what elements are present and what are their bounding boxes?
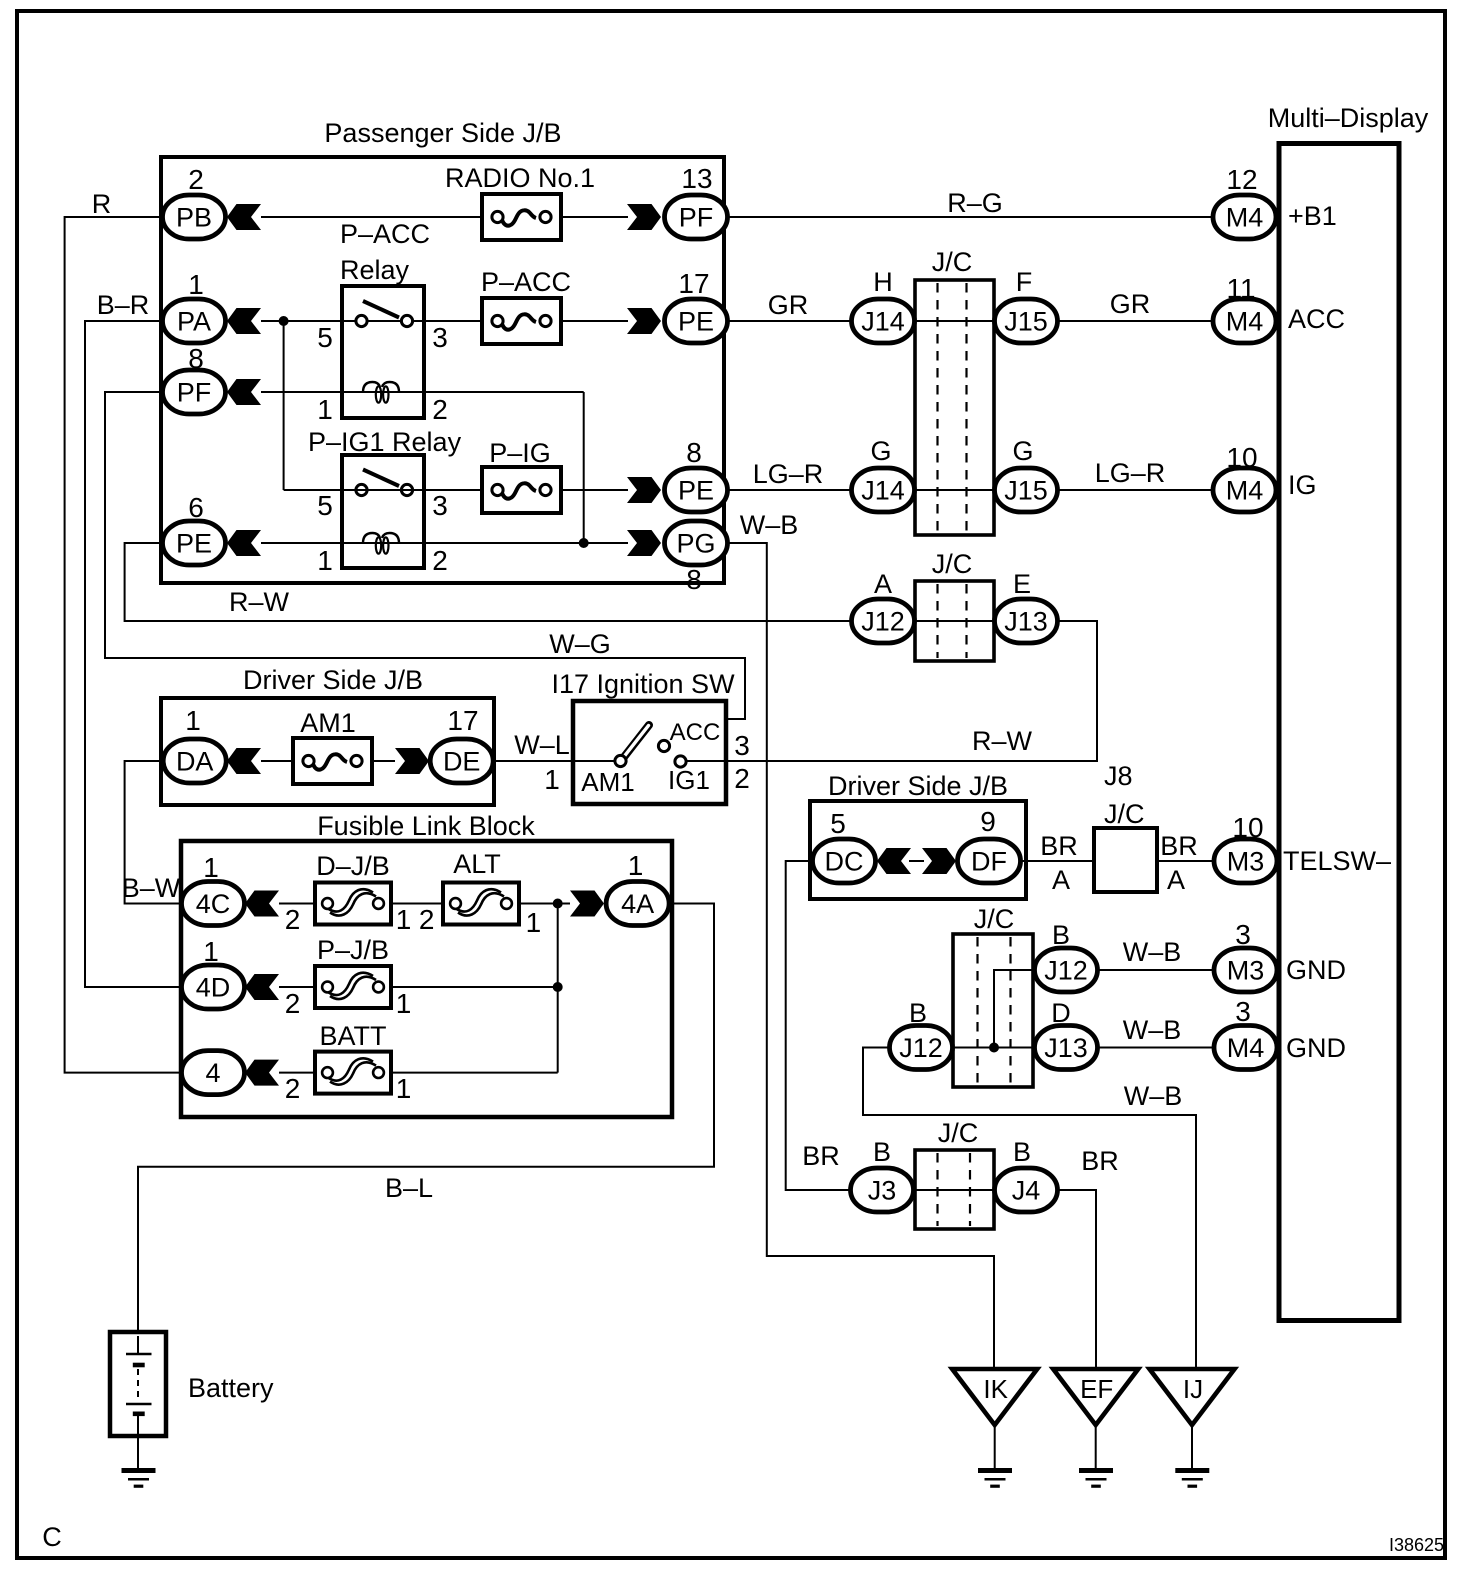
svg-text:PB: PB	[176, 203, 212, 233]
svg-text:2: 2	[432, 545, 448, 576]
svg-text:J/C: J/C	[932, 247, 973, 277]
node junction on PA wire	[279, 316, 289, 326]
wire 4C to D-J/B link	[279, 903, 315, 905]
connector J4	[995, 1168, 1058, 1212]
connector J13 E	[995, 599, 1058, 643]
ground IK ground	[978, 1471, 1012, 1487]
svg-text:1: 1	[526, 907, 542, 938]
fuse P-IG	[482, 467, 561, 513]
svg-text:W–G: W–G	[549, 629, 611, 659]
wire W-B net PG to IK ground	[727, 543, 994, 1369]
svg-text:1: 1	[185, 705, 201, 736]
svg-text:PF: PF	[679, 203, 714, 233]
wire P-ACC coil pin2 down to PG wire	[583, 392, 585, 543]
svg-text:J/C: J/C	[1104, 799, 1145, 829]
wire 4 to BATT link	[279, 1072, 315, 1074]
arrow into 4C	[245, 891, 279, 917]
connector DA	[163, 739, 226, 783]
svg-text:BR: BR	[1081, 1146, 1119, 1176]
svg-text:J15: J15	[1004, 307, 1048, 337]
relay coil P-IG1 relay	[363, 533, 399, 554]
svg-text:1: 1	[203, 936, 219, 967]
svg-text:2: 2	[188, 164, 204, 195]
svg-text:1: 1	[396, 904, 412, 935]
svg-text:GR: GR	[768, 290, 809, 320]
svg-text:5: 5	[317, 490, 333, 521]
wire LG-R net PE8 to J14 G	[727, 489, 851, 491]
svg-text:BR: BR	[802, 1141, 840, 1171]
svg-text:P–IG1 Relay: P–IG1 Relay	[308, 427, 462, 457]
fuse RADIO No.1	[482, 194, 561, 240]
svg-text:BR: BR	[1160, 831, 1198, 861]
svg-text:AM1: AM1	[300, 708, 356, 738]
wire R net: PB to fusible link 4	[65, 217, 183, 1073]
wire IJ to ground	[1191, 1425, 1193, 1469]
pin P-ACC relay pin 5 contact	[356, 315, 367, 326]
svg-text:11: 11	[1226, 273, 1255, 304]
svg-text:M4: M4	[1226, 476, 1264, 506]
arrow into DA	[227, 748, 261, 774]
connector M3 10	[1214, 839, 1277, 883]
svg-text:R–G: R–G	[947, 188, 1003, 218]
wire W-G net: PF to ignition ACC	[105, 392, 745, 741]
wire 4D to P-J/B link	[279, 986, 315, 988]
svg-text:J13: J13	[1004, 607, 1048, 637]
svg-text:Multi–Display: Multi–Display	[1268, 103, 1429, 133]
arrow into 4	[245, 1060, 279, 1086]
node junction at ALT output	[553, 899, 563, 909]
pin P-ACC relay pin 3 contact	[401, 315, 412, 326]
wire BR net DF to J8	[1021, 860, 1094, 862]
wire PB to RADIO No.1 fuse	[261, 216, 482, 218]
wire LG-R net J15 G to M4 10	[1058, 489, 1213, 491]
ground triangle EF	[1053, 1369, 1138, 1425]
svg-text:1: 1	[628, 850, 644, 881]
svg-text:Battery: Battery	[188, 1373, 274, 1403]
svg-text:8: 8	[188, 343, 204, 374]
svg-text:1: 1	[317, 545, 333, 576]
connector 4C	[182, 882, 245, 926]
svg-text:B: B	[1013, 1137, 1031, 1167]
svg-text:B–W: B–W	[122, 873, 181, 903]
svg-text:4D: 4D	[196, 973, 231, 1003]
wire ALT link to arrow	[519, 903, 570, 905]
connector J3	[851, 1168, 914, 1212]
svg-text:J15: J15	[1004, 476, 1048, 506]
wire W-B net J13 D to M4 3	[1098, 1047, 1213, 1049]
svg-text:BR: BR	[1040, 831, 1078, 861]
arrow out to PF 13	[627, 204, 661, 230]
fusible link BATT	[315, 1052, 391, 1094]
svg-text:R–W: R–W	[229, 587, 290, 617]
junction block J/C J14-J15	[915, 280, 994, 535]
svg-text:W–B: W–B	[1124, 1081, 1183, 1111]
arrow out to PE 8	[627, 477, 661, 503]
connector J12 B left	[890, 1026, 953, 1070]
fusible link D-J/B	[315, 883, 391, 925]
svg-text:M4: M4	[1227, 1033, 1265, 1063]
wire GR net J15 F to M4 11	[1058, 320, 1213, 322]
junction block J/C J12-J13	[915, 581, 994, 661]
svg-text:M3: M3	[1227, 847, 1265, 877]
svg-text:2: 2	[432, 394, 448, 425]
svg-text:J/C: J/C	[938, 1118, 979, 1148]
svg-text:W–B: W–B	[740, 510, 799, 540]
svg-text:3: 3	[1235, 996, 1251, 1027]
svg-text:J14: J14	[861, 476, 905, 506]
svg-text:1: 1	[396, 988, 412, 1019]
wire R-W net: PE to J12 A	[125, 543, 851, 621]
svg-text:F: F	[1016, 267, 1033, 297]
connector PE 6	[163, 521, 226, 565]
arrow into PA	[227, 308, 261, 334]
svg-text:Fusible Link Block: Fusible Link Block	[317, 811, 535, 841]
svg-text:1: 1	[188, 269, 204, 300]
wire RADIO No.1 fuse to PF 13	[561, 216, 628, 218]
svg-text:4C: 4C	[196, 889, 231, 919]
connector DF	[958, 839, 1021, 883]
svg-text:A: A	[874, 569, 892, 599]
wire P-IG1 relay switch to P-IG fuse	[284, 489, 482, 491]
wire B-R net: PA to 4D	[85, 321, 183, 987]
svg-text:1: 1	[203, 852, 219, 883]
svg-text:PE: PE	[678, 476, 714, 506]
svg-text:I17 Ignition SW: I17 Ignition SW	[551, 669, 735, 699]
arrow out to DE	[395, 748, 429, 774]
connector 4A	[606, 882, 669, 926]
svg-text:2: 2	[285, 1073, 301, 1104]
svg-text:13: 13	[681, 163, 712, 194]
wire D-J/B to ALT link	[391, 903, 443, 905]
arrow out to PG	[627, 530, 661, 556]
wire battery to ground	[137, 1436, 139, 1469]
svg-text:1: 1	[317, 394, 333, 425]
svg-text:P–ACC: P–ACC	[481, 267, 571, 297]
svg-text:2: 2	[734, 763, 750, 794]
wire P-J/B link to bus	[391, 986, 558, 988]
svg-text:DF: DF	[971, 847, 1007, 877]
wire IG row through J/C	[915, 489, 994, 491]
svg-text:ACC: ACC	[670, 719, 721, 746]
node junction at P-J/B output	[553, 982, 563, 992]
wire BR net J4 to EF ground	[1058, 1190, 1096, 1369]
svg-text:P–J/B: P–J/B	[317, 935, 389, 965]
connector PG	[665, 521, 728, 565]
svg-text:C: C	[42, 1522, 62, 1552]
connector 4D	[182, 965, 245, 1009]
svg-text:G: G	[870, 436, 891, 466]
wire P-ACC fuse to PE 17	[561, 320, 628, 322]
wire W-B net J12 B to M3 3	[1098, 969, 1213, 971]
wire branch up to J12 B	[994, 970, 1034, 1048]
svg-text:3: 3	[432, 490, 448, 521]
arrow into PF	[227, 379, 261, 405]
svg-text:6: 6	[188, 492, 204, 523]
svg-text:J3: J3	[868, 1176, 897, 1206]
svg-text:Driver Side J/B: Driver Side J/B	[828, 771, 1008, 801]
connector J15 G	[995, 468, 1058, 512]
svg-text:W–B: W–B	[1123, 937, 1182, 967]
svg-text:PG: PG	[676, 529, 715, 559]
svg-text:B: B	[1052, 920, 1070, 950]
svg-text:B: B	[909, 998, 927, 1028]
svg-text:17: 17	[678, 268, 709, 299]
arrow into PE	[227, 530, 261, 556]
wire BR net DC to J3	[786, 861, 849, 1190]
ground battery ground	[122, 1471, 156, 1487]
svg-text:DE: DE	[443, 747, 481, 777]
arrow into DC	[877, 848, 911, 874]
arrow out to PE 17	[627, 308, 661, 334]
connector PA	[163, 299, 226, 343]
svg-text:TELSW–: TELSW–	[1283, 846, 1391, 876]
relay P-IG1	[342, 455, 424, 568]
wire PE 6 through P-IG1 coil to PG	[261, 542, 628, 544]
node junction of coil feeds	[579, 538, 589, 548]
svg-text:J4: J4	[1012, 1176, 1041, 1206]
pin P-IG1 relay pin 3 contact	[401, 484, 412, 495]
svg-text:10: 10	[1226, 442, 1257, 473]
arrow into 4D	[245, 974, 279, 1000]
svg-text:+B1: +B1	[1288, 201, 1337, 231]
svg-text:AM1: AM1	[581, 767, 634, 797]
svg-text:PA: PA	[177, 307, 211, 337]
wire W-L net DE to ignition	[494, 760, 573, 762]
wire PA to P-ACC relay switch	[261, 320, 482, 322]
wire row through J3-J4 J/C	[915, 1189, 994, 1191]
svg-text:5: 5	[830, 808, 846, 839]
svg-text:M4: M4	[1226, 307, 1264, 337]
svg-text:PE: PE	[678, 307, 714, 337]
connector PF 8	[163, 370, 226, 414]
fuse P-ACC	[482, 298, 561, 344]
svg-text:9: 9	[980, 806, 996, 837]
svg-text:P–IG: P–IG	[489, 438, 551, 468]
svg-text:3: 3	[1235, 919, 1251, 950]
svg-text:M3: M3	[1227, 956, 1265, 986]
svg-text:EF: EF	[1080, 1374, 1113, 1404]
wire R-W net J13 E to ignition IG1	[726, 621, 1097, 761]
svg-text:1: 1	[544, 764, 560, 795]
svg-text:J14: J14	[861, 307, 905, 337]
svg-text:D: D	[1051, 998, 1071, 1028]
ignition switch box	[573, 701, 726, 804]
svg-text:J8: J8	[1104, 761, 1133, 791]
wire GR net PE17 to J14 H	[727, 320, 851, 322]
svg-text:E: E	[1013, 569, 1031, 599]
connector PF 13	[665, 195, 728, 239]
svg-text:IK: IK	[983, 1374, 1008, 1404]
Passenger Side J/B box	[161, 157, 724, 583]
node junction inside GND J/C	[989, 1043, 999, 1053]
svg-text:GND: GND	[1286, 1033, 1346, 1063]
svg-text:PE: PE	[176, 529, 212, 559]
connector PE 8	[665, 468, 728, 512]
Fusible Link Block box	[181, 841, 672, 1117]
connector J14 H	[852, 299, 915, 343]
svg-text:12: 12	[1226, 164, 1257, 195]
svg-text:G: G	[1012, 436, 1033, 466]
wire junction down to P-IG1 relay switch	[283, 321, 285, 490]
svg-text:17: 17	[447, 705, 478, 736]
svg-text:J/C: J/C	[932, 549, 973, 579]
battery	[110, 1332, 166, 1436]
svg-text:J13: J13	[1044, 1033, 1088, 1063]
svg-text:R: R	[92, 189, 112, 219]
ground IJ ground	[1175, 1471, 1209, 1487]
fusible link ALT	[443, 883, 519, 925]
pin IG1 contact	[675, 756, 686, 767]
Driver Side J/B 2 box	[810, 801, 1026, 899]
wire R-W row through J/C	[915, 620, 994, 622]
connector J12 A	[852, 599, 915, 643]
svg-text:3: 3	[432, 322, 448, 353]
connector J12 B	[1035, 948, 1098, 992]
svg-text:4A: 4A	[621, 889, 654, 919]
Multi-Display box	[1279, 144, 1399, 1321]
svg-text:2: 2	[285, 988, 301, 1019]
svg-text:2: 2	[419, 904, 435, 935]
svg-text:Relay: Relay	[340, 255, 410, 285]
svg-text:P–ACC: P–ACC	[340, 219, 430, 249]
wire ACC row through J/C	[915, 320, 994, 322]
Driver Side J/B box	[161, 698, 494, 805]
fuse AM1	[293, 738, 372, 784]
svg-text:GND: GND	[1286, 955, 1346, 985]
pin AM1 contact	[615, 755, 626, 766]
svg-text:W–L: W–L	[514, 730, 570, 760]
connector J15 F	[995, 299, 1058, 343]
svg-text:IG1: IG1	[668, 765, 710, 795]
svg-text:10: 10	[1232, 812, 1263, 843]
connector J13 D	[1035, 1026, 1098, 1070]
svg-text:M4: M4	[1226, 203, 1264, 233]
svg-text:8: 8	[686, 564, 702, 595]
connector DE	[430, 739, 493, 783]
ground EF ground	[1079, 1471, 1113, 1487]
svg-text:B–L: B–L	[385, 1173, 433, 1203]
connector PE 17	[665, 299, 728, 343]
wire B-W net: DA to 4C	[125, 761, 183, 904]
fusible link P-J/B	[315, 966, 391, 1008]
svg-text:DA: DA	[176, 747, 214, 777]
wire row through GND J/C	[953, 1047, 1034, 1049]
wire PF 8 to P-ACC relay coil and over to PG junction	[261, 391, 584, 393]
wire R-G net PF13 to M4 12	[727, 216, 1213, 218]
connector PB	[163, 195, 226, 239]
svg-text:PF: PF	[177, 378, 212, 408]
svg-text:J12: J12	[899, 1033, 943, 1063]
svg-text:RADIO No.1: RADIO No.1	[445, 163, 595, 193]
junction block J/C J12B-J13D	[953, 934, 1033, 1087]
svg-text:BATT: BATT	[320, 1021, 387, 1051]
svg-text:GR: GR	[1110, 289, 1151, 319]
relay coil P-ACC relay	[363, 382, 399, 403]
wire into AM1 contact	[573, 760, 615, 762]
svg-text:1: 1	[396, 1073, 412, 1104]
ground triangle IJ	[1150, 1369, 1235, 1425]
svg-text:IG: IG	[1288, 470, 1317, 500]
svg-text:R–W: R–W	[972, 726, 1033, 756]
relay P-ACC	[342, 286, 424, 418]
svg-text:J12: J12	[861, 607, 905, 637]
arrow out to DF	[922, 848, 956, 874]
svg-text:I38625: I38625	[1389, 1535, 1444, 1555]
wire EF to ground	[1095, 1425, 1097, 1469]
connector M4 12	[1213, 195, 1276, 239]
pin ACC contact	[658, 740, 669, 751]
svg-text:Passenger Side J/B: Passenger Side J/B	[324, 118, 561, 148]
svg-text:B–R: B–R	[97, 290, 150, 320]
connector 4	[182, 1051, 245, 1095]
wire BATT link to bus	[391, 1072, 558, 1074]
wire bus down the fusible links	[557, 904, 559, 1073]
svg-text:H: H	[873, 267, 893, 297]
svg-text:LG–R: LG–R	[1095, 458, 1166, 488]
wire DA to AM1 fuse	[261, 760, 293, 762]
connector M4 10	[1213, 468, 1276, 512]
wire B-L net 4A to battery	[138, 904, 714, 1355]
pin P-IG1 relay pin 5 contact	[356, 484, 367, 495]
svg-text:J12: J12	[1044, 956, 1088, 986]
ground triangle IK	[952, 1369, 1037, 1425]
svg-text:J/C: J/C	[974, 904, 1015, 934]
svg-text:ALT: ALT	[453, 849, 501, 879]
connector DC	[813, 839, 876, 883]
svg-text:LG–R: LG–R	[753, 459, 824, 489]
arrow out to 4A	[570, 891, 604, 917]
wire IG1 contact to edge	[686, 760, 726, 762]
ignition switch lever	[624, 725, 649, 757]
svg-text:B: B	[873, 1137, 891, 1167]
svg-text:2: 2	[285, 904, 301, 935]
svg-text:A: A	[1167, 865, 1185, 895]
svg-text:W–B: W–B	[1123, 1015, 1182, 1045]
svg-text:DC: DC	[825, 847, 864, 877]
junction block J8	[1094, 828, 1157, 892]
wire AM1 fuse to DE	[370, 760, 395, 762]
svg-text:5: 5	[317, 322, 333, 353]
svg-text:Driver Side J/B: Driver Side J/B	[243, 665, 423, 695]
svg-text:4: 4	[205, 1058, 220, 1088]
svg-text:3: 3	[734, 730, 750, 761]
wire IK to ground	[994, 1425, 996, 1469]
wire P-IG fuse to PE 8	[561, 489, 628, 491]
svg-text:IJ: IJ	[1183, 1374, 1203, 1404]
svg-text:ACC: ACC	[1288, 304, 1345, 334]
connector M4 11	[1213, 299, 1276, 343]
connector M4 3	[1214, 1026, 1277, 1070]
svg-text:A: A	[1052, 865, 1070, 895]
wire W-B net J12 left to IJ ground	[863, 1048, 1196, 1370]
connector M3 3	[1214, 948, 1277, 992]
wire BR net J8 to M3 10	[1157, 860, 1213, 862]
junction block J/C J3-J4	[915, 1150, 994, 1229]
connector J14 G	[852, 468, 915, 512]
wire between DC and DF arrows	[909, 860, 924, 862]
svg-text:D–J/B: D–J/B	[316, 851, 390, 881]
arrow into PB	[227, 204, 261, 230]
svg-text:8: 8	[686, 437, 702, 468]
